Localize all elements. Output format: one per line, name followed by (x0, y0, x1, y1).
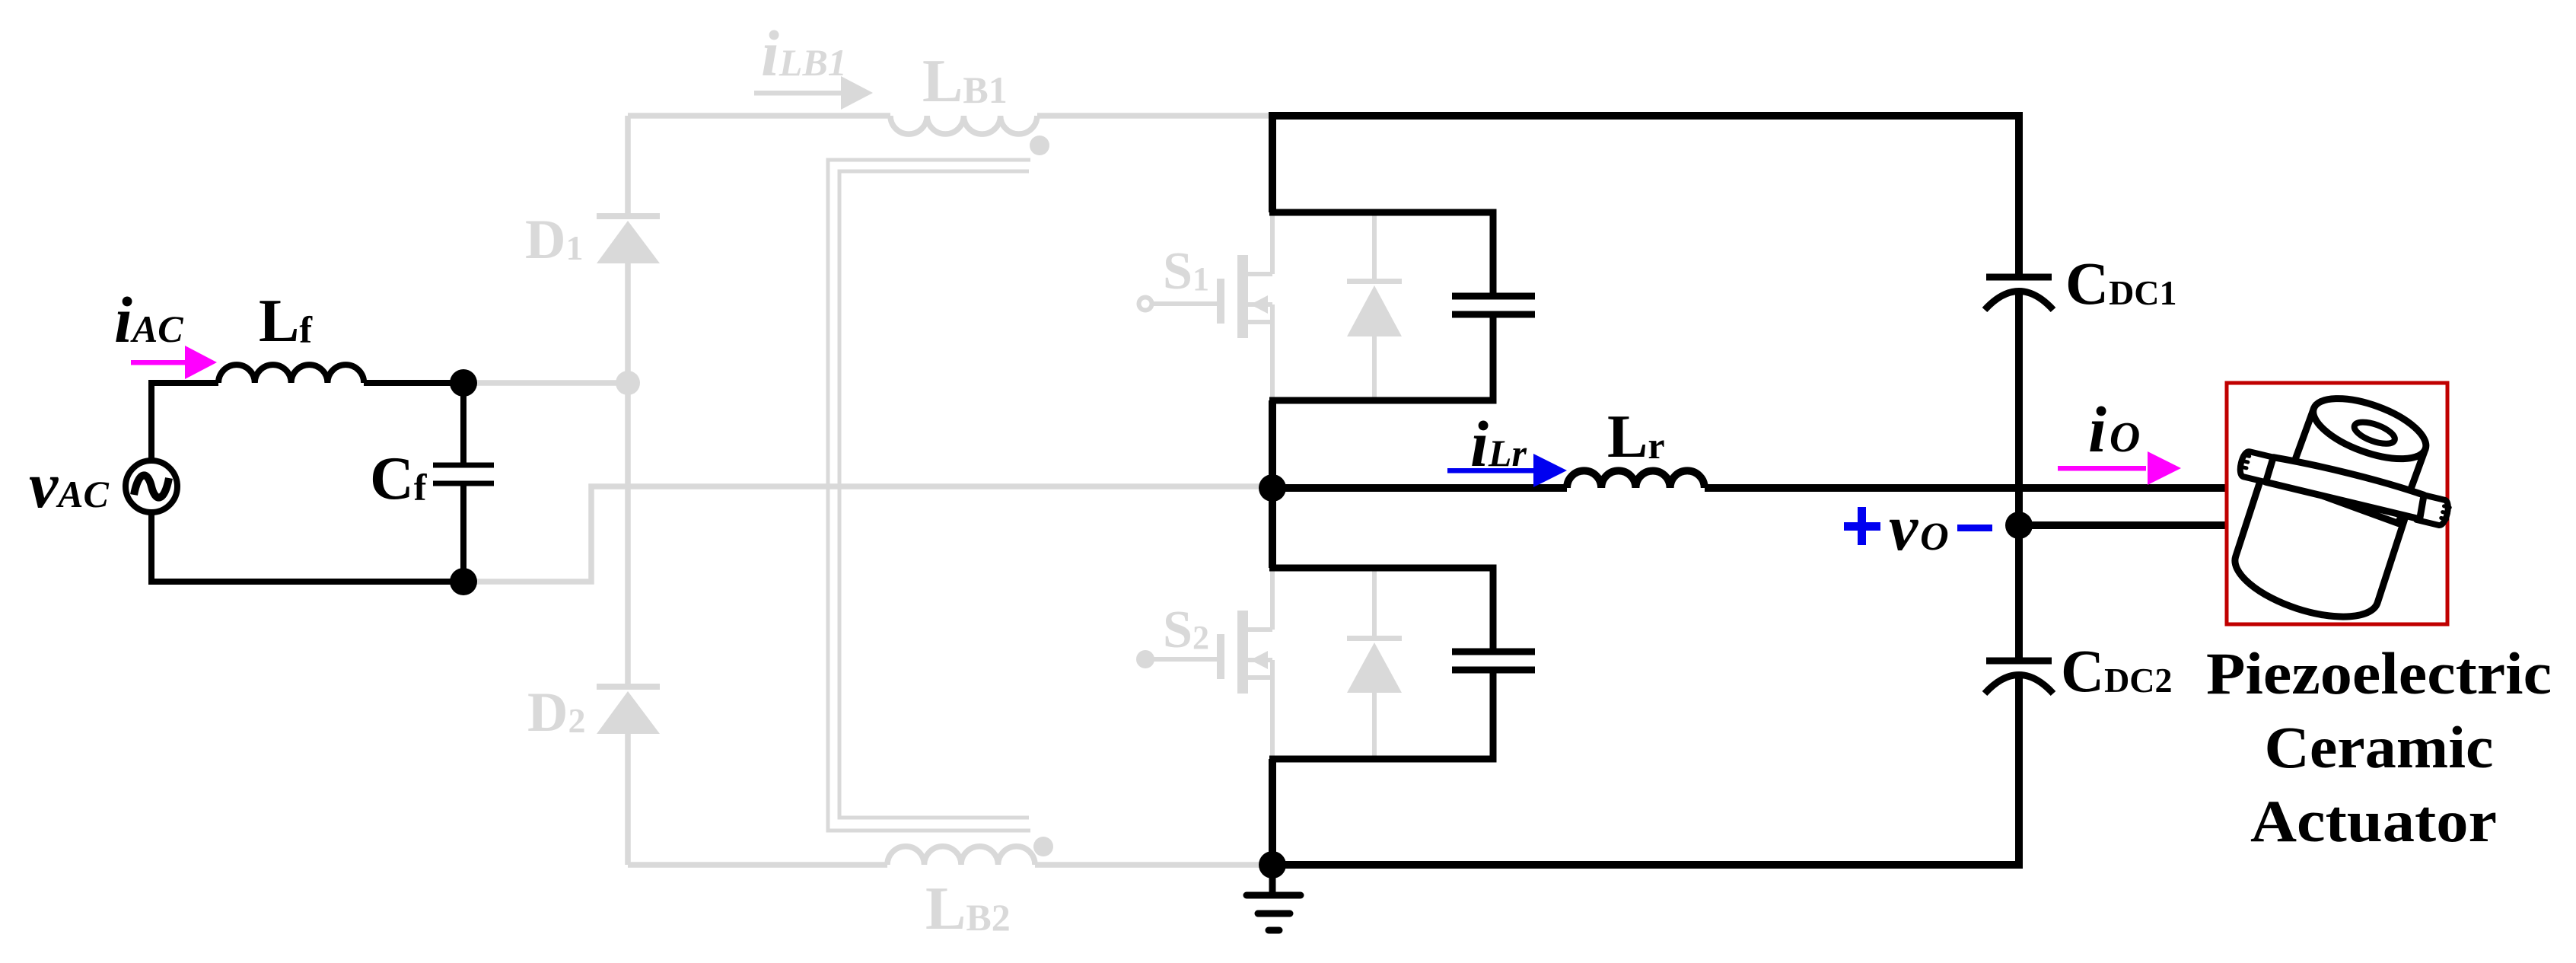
BLACK-SECTION (126, 116, 2227, 930)
current arrow iAC (131, 346, 217, 379)
actuator red frame (2227, 383, 2447, 624)
wire S1 to midpoint (1269, 400, 1276, 568)
snubber capacitor of S2 (1452, 652, 1535, 670)
ac source vAC (126, 461, 177, 512)
junction node Cf-bottom (450, 568, 477, 595)
label S2 (1163, 601, 1209, 659)
capacitor CDC1 (1985, 277, 2053, 525)
ground (1247, 865, 1301, 930)
svg-text:Ceramic: Ceramic (2265, 714, 2494, 780)
current arrow iLr (1447, 454, 1567, 487)
label LB1 (922, 48, 1008, 115)
svg-text:iAC: iAC (114, 283, 183, 356)
label Piezoelectric (2206, 640, 2552, 706)
svg-text:iLB1: iLB1 (761, 17, 847, 90)
body diode of S1 (1347, 212, 1402, 400)
svg-text:S1: S1 (1163, 242, 1209, 301)
diode D2 (597, 684, 660, 734)
svg-text:Actuator: Actuator (2250, 788, 2497, 854)
svg-text:Piezoelectric: Piezoelectric (2206, 640, 2552, 706)
label vO minus sign (1957, 525, 1992, 531)
capacitor Cf (433, 383, 494, 582)
wire top rail (1272, 116, 2019, 277)
label iLB1 (761, 17, 847, 90)
inductor Lf (218, 365, 364, 383)
wire Lr to actuator (1705, 484, 2227, 492)
label vO (1889, 491, 1949, 564)
svg-text:LB2: LB2 (925, 875, 1011, 942)
svg-text:LB1: LB1 (922, 48, 1008, 115)
snubber capacitor of S1 (1452, 296, 1535, 314)
diode D1 (597, 213, 660, 263)
label Lr (1607, 403, 1665, 470)
svg-text:D1: D1 (525, 209, 583, 271)
piezoelectric actuator drawing (2226, 386, 2452, 631)
label Actuator (2250, 788, 2497, 854)
label LB2 (925, 875, 1011, 942)
wire S2 to bottom node (1269, 759, 1276, 865)
label vO plus sign (1844, 507, 1880, 545)
wire node Cf-top to D1 branch (463, 380, 628, 386)
GRAY-SECTION (463, 116, 1270, 865)
wire output node to actuator (2019, 521, 2227, 529)
phase dot LB2 (1033, 837, 1053, 856)
svg-text:Lf: Lf (259, 288, 313, 355)
svg-text:CDC2: CDC2 (2061, 639, 2173, 705)
label CDC1 (2065, 251, 2177, 317)
wire bottom rail (1272, 674, 2019, 865)
body diode of S2 (1347, 568, 1402, 759)
transistor S1 (1139, 212, 1273, 400)
label iLr (1470, 407, 1527, 480)
junction node Lf-Cf (450, 369, 477, 397)
junction node D1-branch (616, 371, 640, 395)
capacitor CDC2 (1985, 525, 2053, 694)
label D1 (525, 209, 583, 271)
transistor S2 (1136, 568, 1272, 759)
wire vAC bottom loop (151, 512, 463, 582)
wire return path Cf-bottom to bridge midpoint (466, 486, 1270, 582)
phase dot LB1 (1030, 136, 1049, 155)
inductor LB1 (890, 116, 1037, 134)
S2 cell box bottom (1269, 670, 1493, 759)
wire coupled-bus outer (828, 160, 1030, 831)
label S1 (1163, 242, 1209, 301)
svg-text:D2: D2 (527, 681, 585, 744)
wire LB2 bottom run (628, 862, 1270, 868)
wire LB1 top run (628, 113, 1270, 119)
wire Lf to node (364, 380, 463, 386)
wire coupled-bus inner (839, 171, 1029, 818)
label iO (2088, 393, 2140, 466)
svg-text:Lr: Lr (1607, 403, 1665, 470)
label D2 (527, 681, 585, 744)
svg-text:Cf: Cf (370, 445, 428, 512)
junction node output vO (2005, 512, 2033, 539)
junction node ground rail (1259, 851, 1286, 878)
label iAC (114, 283, 183, 356)
label CDC2 (2061, 639, 2173, 705)
inductor LB2 (887, 847, 1035, 865)
junction node bridge midpoint (1259, 474, 1286, 502)
svg-text:iO: iO (2088, 393, 2140, 466)
S2 cell box top (1269, 568, 1493, 652)
svg-text:S2: S2 (1163, 601, 1209, 659)
wire D1-D2 vertical branch (625, 116, 631, 865)
S1 cell box bottom (1269, 314, 1493, 400)
label Ceramic (2265, 714, 2494, 780)
current arrow iO (2058, 451, 2181, 485)
wire vAC to Lf (151, 383, 218, 461)
inductor Lr (1567, 470, 1705, 488)
svg-text:vAC: vAC (29, 448, 110, 521)
current arrow iLB1 (754, 76, 873, 110)
svg-text:vO: vO (1889, 491, 1949, 564)
label vAC (29, 448, 110, 521)
S1 cell box top (1269, 212, 1493, 296)
svg-text:CDC1: CDC1 (2065, 251, 2177, 317)
wire midpoint to Lr (1272, 484, 1567, 492)
label Cf (370, 445, 428, 512)
label Lf (259, 288, 313, 355)
